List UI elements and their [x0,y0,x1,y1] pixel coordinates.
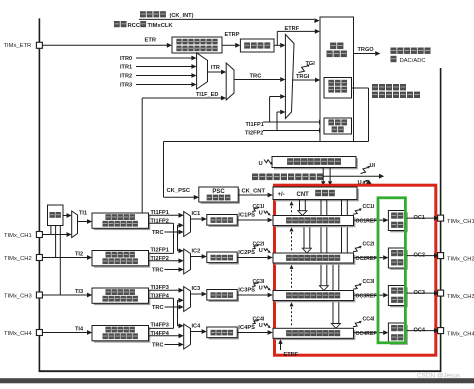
svg-text:UI: UI [370,163,376,169]
wire: OC4REF [354,332,384,334]
svg-text:TIMx_CH1: TIMx_CH1 [4,233,32,239]
wire: TI2 [42,257,87,259]
svg-text:TI3: TI3 [75,289,83,295]
wire: IC1 to prescaler [191,218,202,220]
wire: crossover ch3/ch4 [173,298,175,328]
annotation: green rectangle [378,198,405,343]
svg-text:IC4: IC4 [192,323,202,329]
wire: TI1FP1 to encoder [263,121,319,123]
box: prescaler ch3 [209,291,239,302]
wire: ITR [208,71,222,73]
wire: OC1REF [354,219,384,221]
svg-text:TI1FP1: TI1FP1 [246,122,264,128]
svg-text:U: U [259,161,263,167]
wire: CK_CNT [238,194,267,196]
svg-text:TRC: TRC [250,74,263,80]
box: capture/compare register 1 [275,217,356,227]
pad: TIMx_CH3 output [438,290,444,296]
svg-text:TRGO: TRGO [358,47,375,53]
svg-text:CK_CNT: CK_CNT [242,188,266,194]
mux: IC4 selector [184,324,191,349]
svg-text:ETRF: ETRF [284,352,299,358]
box: input filter (ETR) [240,39,274,52]
wire: IC4 to prescaler [191,331,202,333]
box: output control ch4 [390,325,408,345]
svg-text:+/-: +/- [278,192,285,198]
event arrow: TGI [299,66,308,73]
wire: ARR to CNT double lines [322,168,324,182]
svg-text:ITR0: ITR0 [120,56,132,62]
svg-text:TRC: TRC [152,230,164,236]
svg-text:IC1PS: IC1PS [238,213,255,219]
svg-text:TIMx_CH4: TIMx_CH4 [447,331,474,337]
wire: TI1 [78,221,88,223]
svg-text:CK_PSC: CK_PSC [167,188,191,194]
bus: CC3 to CC4 compare arrows (gap 4) [290,302,294,306]
svg-text:TI2: TI2 [75,252,83,258]
svg-text:PSC: PSC [212,189,225,195]
svg-text:ITR3: ITR3 [120,83,132,89]
box: slave mode controller [324,78,352,99]
wire: ETRF stub at bottom [280,344,282,351]
svg-text:U: U [259,323,263,329]
annotation: red rectangle [275,185,436,355]
bus: CC2 to CC3 compare arrows (gap 3) [290,265,294,269]
svg-text:CC3I: CC3I [363,279,375,285]
wire: TRGO output [354,53,376,55]
box: encoder interface [324,118,352,134]
svg-text:TIMx_CH3: TIMx_CH3 [447,294,474,300]
svg-text:TI1F_ED: TI1F_ED [196,92,218,98]
svg-text:TIMx_CH1: TIMx_CH1 [447,219,474,225]
box: auto-reload register ARR [274,158,358,169]
svg-text:CNT: CNT [297,192,310,198]
wire: OC2 output [406,255,434,257]
wire: ETRP [222,44,235,46]
box: XOR [48,205,64,226]
svg-text:OC2: OC2 [414,253,426,259]
wire: IC2PS into register [237,257,267,259]
svg-text:U: U [259,285,263,291]
box: input filter & edge detector ch4 [94,327,151,342]
svg-text:IC4PS: IC4PS [238,325,255,331]
wire: ETRF to trigger controller [274,44,277,46]
wire: OC3 output [406,292,434,294]
frame: bottom line [39,370,441,372]
box: prescaler ch2 [209,254,239,265]
wire: CH1 to XOR mux [42,234,66,236]
box: trigger controller [320,17,354,142]
svg-text:IC3: IC3 [192,286,201,292]
svg-text:TIMx_ETR: TIMx_ETR [4,43,32,49]
svg-text:TIMx_CH2: TIMx_CH2 [447,256,474,262]
wire: ETR [42,44,167,46]
svg-text:ETR: ETR [145,37,157,43]
box: capture/compare register 3 [275,292,356,302]
svg-text:CC2I: CC2I [363,241,375,247]
label: 内部时钟 (CK_INT) [140,11,146,17]
svg-text:OC1: OC1 [414,215,426,221]
wires: XOR taps from CH1 CH2 CH3 [50,226,52,235]
frame: left bus line [38,18,40,371]
svg-text:TRC: TRC [152,342,164,348]
svg-text:(CK_INT): (CK_INT) [170,13,194,19]
wire: IC2 to prescaler [191,256,202,258]
pad: TIMx_CH4 output [438,328,444,334]
box: polarity select / edge detect / prescaler [172,37,222,53]
wire: internal clock CK_INT [139,18,314,20]
event arrow: UI [361,168,369,174]
wire: TI3 [42,294,87,296]
box: PSC prescaler [201,189,240,204]
box: input filter & edge detector ch1 [94,215,151,230]
box: output control ch3 [390,287,408,307]
wire: ETRF into TRGI mux [277,44,280,46]
label: 来自RCC的TIMxCLK [114,21,120,27]
mux: TI1 selector [72,211,78,238]
mux: TRGI selector [285,35,294,119]
svg-text:TRGI: TRGI [296,74,310,80]
box: capture/compare register 4 [275,330,356,340]
box: input filter & edge detector ch2 [94,252,151,267]
svg-text:TI1: TI1 [79,211,87,217]
bus: CNT to CC1 compare arrows (gap 1) [290,201,294,205]
wire: TI4 [42,332,87,334]
svg-text:TIMx_CH3: TIMx_CH3 [4,294,32,300]
wire: XOR output to TI1 mux [63,215,67,217]
box: prescaler ch1 [209,216,239,227]
wire: IC1PS into register [237,219,267,221]
svg-text:OC4REF: OC4REF [356,331,377,337]
wire: update event arrow [323,175,379,177]
box: prescaler ch4 [209,329,239,340]
svg-text:U: U [259,210,263,216]
wire: IC4PS into register [237,332,267,334]
label: reset enable up/down count [372,84,378,90]
wire: crossover ch1/ch2 [173,223,175,253]
wire: CK_PSC route [164,141,369,143]
wire: TI2FP2 to encoder [263,130,319,132]
pad: TIMx_CH1 output [438,215,444,221]
svg-text:IC2PS: IC2PS [238,250,255,256]
svg-text:TI4: TI4 [75,327,84,333]
svg-text:ITR: ITR [211,65,220,71]
svg-text:IC3PS: IC3PS [238,288,255,294]
wire: IC3PS into register [237,294,267,296]
svg-text:OC3: OC3 [414,290,426,296]
mux: ITR selector [197,53,208,89]
box: output control ch1 [390,212,408,232]
svg-text:TIMx_CH2: TIMx_CH2 [4,256,32,262]
wire: OC1 output [406,217,434,219]
mux: IC2 selector [184,249,191,274]
wire: TI1F_ED [142,97,221,99]
svg-text:U: U [259,248,263,254]
wires: ITR0-ITR3 inputs [136,57,192,59]
mux: IC1 selector [184,212,191,237]
wire: OC2REF [354,257,384,259]
box: CNT counter [275,189,359,202]
bus: CC1 to CC2 compare arrows (gap 2) [290,227,294,231]
wire: slave mode controller output [352,87,369,89]
svg-text:TRC: TRC [152,267,164,273]
label: stop clear or up/down [252,174,258,181]
svg-text:TI4FP3: TI4FP3 [151,323,169,329]
page edge: dark band [0,378,474,383]
svg-text:IC2: IC2 [192,248,201,254]
svg-text:TIMx_CH4: TIMx_CH4 [4,331,32,337]
svg-text:OC2REF: OC2REF [356,256,377,262]
svg-text:IC1: IC1 [192,211,201,217]
svg-text:DAC/ADC: DAC/ADC [400,58,426,64]
box: output control ch2 [390,250,408,270]
svg-text:OC1REF: OC1REF [356,218,377,224]
label: to other timers / to DAC ADC [391,48,397,54]
frame: right line [440,68,442,372]
box: capture/compare register 2 [275,255,356,265]
svg-text:TRC: TRC [152,305,164,311]
wire: IC3 to prescaler [191,293,202,295]
svg-text:OC4: OC4 [414,328,426,334]
wire: OC3REF [354,294,384,296]
svg-text:CC1I: CC1I [363,204,375,210]
svg-text:RCC: RCC [128,23,141,29]
svg-text:CC4I: CC4I [363,316,375,322]
svg-text:TIMxCLK: TIMxCLK [148,23,174,29]
svg-text:ITR2: ITR2 [120,74,132,80]
svg-text:TI2FP2: TI2FP2 [245,131,263,137]
mux: IC3 selector [184,287,191,312]
wire: TRGI [292,79,315,81]
svg-text:TI2FP1: TI2FP1 [151,248,169,254]
pad: TIMx_CH2 output [438,253,444,259]
svg-text:ITR1: ITR1 [120,65,132,71]
svg-text:OC3REF: OC3REF [356,293,377,299]
box: input filter & edge detector ch3 [94,290,151,305]
svg-text:ETRF: ETRF [285,26,300,32]
svg-text:TGI: TGI [306,61,316,67]
mux: TRC selector [226,63,234,100]
wire: OC4 output [406,330,434,332]
wire: TRC from mux [234,79,280,81]
svg-text:ETRP: ETRP [225,32,240,38]
